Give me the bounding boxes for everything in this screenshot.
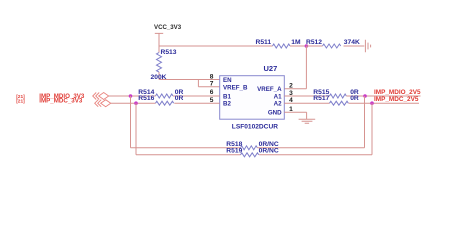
resistor R517 (284, 95, 419, 105)
svg-text:LSF0102DCUR: LSF0102DCUR (232, 124, 278, 131)
svg-text:R519: R519 (226, 147, 242, 154)
wire VREF_A riser from junction to pin 2 (284, 46, 306, 89)
wire B1 drop to R518 row (131, 96, 241, 148)
wire B2 row from port (111, 102, 156, 104)
svg-text:2: 2 (289, 83, 293, 90)
svg-text:VREF_A: VREF_A (257, 86, 282, 93)
node junction A1/R518 (363, 94, 367, 98)
resistor R518 (226, 141, 364, 150)
svg-text:IMP_MDC_3V3: IMP_MDC_3V3 (39, 98, 83, 105)
resistor R513 (151, 46, 177, 81)
node junction R511/R512/VREF_A (305, 44, 309, 48)
resistor R516 (138, 95, 219, 105)
svg-text:R512: R512 (306, 39, 322, 46)
svg-text:B1: B1 (223, 93, 231, 100)
svg-text:VREF_B: VREF_B (223, 84, 248, 91)
wire B1 row from port (109, 95, 156, 97)
svg-text:[21]: [21] (16, 98, 25, 104)
svg-text:VCC_3V3: VCC_3V3 (154, 24, 182, 31)
svg-text:GND: GND (268, 110, 282, 117)
wire top rail to R511 (159, 45, 273, 47)
ground (rotated) at end of R512 (365, 40, 370, 52)
wire R518 riser to A1 node (364, 96, 366, 148)
svg-text:374K: 374K (344, 39, 360, 46)
resistor R514 (138, 89, 219, 98)
svg-text:A2: A2 (274, 101, 282, 108)
svg-text:0R/NC: 0R/NC (259, 147, 279, 154)
svg-text:R511: R511 (256, 39, 272, 46)
port IMP_MDC_3V3 (16, 98, 111, 107)
wire B2 drop to R519 row (136, 103, 241, 155)
svg-text:R516: R516 (138, 95, 154, 102)
svg-text:R513: R513 (161, 49, 177, 56)
power symbol VCC_3V3 (154, 24, 182, 46)
resistor R519 (226, 147, 372, 157)
svg-text:EN: EN (223, 77, 232, 84)
svg-text:IMP_MDC_2V5: IMP_MDC_2V5 (374, 96, 419, 103)
wire 200K to EN / VREF_B tie (159, 80, 220, 87)
svg-text:A1: A1 (274, 93, 282, 100)
svg-text:B2: B2 (223, 101, 231, 108)
node junction B2 tap (134, 101, 138, 105)
svg-text:6: 6 (210, 89, 214, 96)
wire GND pin to ground (284, 112, 306, 119)
resistor R515 (284, 89, 420, 98)
svg-text:7: 7 (210, 81, 214, 88)
svg-text:IMP_MDIO_2V5: IMP_MDIO_2V5 (374, 89, 421, 96)
ground (299, 119, 316, 123)
svg-text:0R: 0R (350, 95, 359, 102)
svg-text:8: 8 (210, 73, 214, 80)
IC U27 LSF0102DCUR (220, 64, 285, 131)
port IMP_MDIO_3V3 (16, 93, 109, 101)
node junction B1 tap (129, 94, 133, 98)
svg-text:U27: U27 (264, 64, 278, 73)
node junction A2/R519 (370, 101, 374, 105)
wire R519 riser to A2 node (371, 103, 373, 155)
svg-text:0R: 0R (175, 95, 184, 102)
resistor R511 (256, 39, 307, 48)
svg-text:1M: 1M (291, 39, 301, 46)
svg-text:R517: R517 (313, 95, 329, 102)
resistor R512 (306, 39, 364, 48)
